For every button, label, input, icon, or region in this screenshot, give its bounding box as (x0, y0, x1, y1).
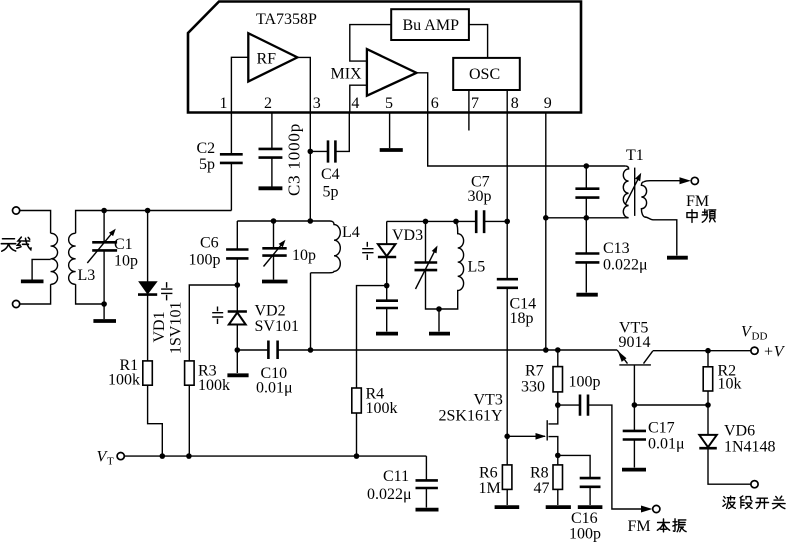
svg-text:100k: 100k (198, 377, 230, 394)
op-amp RF amplifier triangle (248, 33, 297, 81)
varactor VD3 triangle (378, 244, 396, 256)
svg-text:47: 47 (534, 480, 550, 497)
wire L3 secondary top to node A (76, 211, 232, 234)
ground under L5 tank (429, 332, 450, 336)
oscillator OSC box (453, 58, 520, 90)
transistor VT3 gate arrowhead (536, 433, 547, 440)
svg-text:30p: 30p (468, 188, 492, 205)
ground under C17 (622, 468, 646, 472)
terminal FM IF (691, 177, 698, 184)
wire pin4 riser to MIX lower input (350, 85, 367, 112)
svg-text:C11: C11 (383, 468, 409, 485)
wire C14 bottom crosses bus to gate (506, 288, 508, 435)
varactor VD2 cathode bar (228, 310, 247, 313)
transformer T1 tuning arrow (625, 179, 638, 205)
ground under R8 (546, 505, 571, 509)
ground under VD2 node (227, 373, 248, 377)
wire VD1 to R1 (147, 295, 149, 361)
wire C11 bottom lead (425, 488, 427, 508)
capacitor C11 plates (416, 480, 438, 488)
svg-text:6: 6 (431, 95, 439, 112)
wire pin6 down and right to T1 (428, 113, 626, 167)
node dot R2 top on VDD rail (705, 348, 711, 354)
wire Bu AMP right to OSC top (469, 25, 488, 58)
node dot R1 on VT line (160, 453, 166, 459)
capacitor C17 plates (623, 431, 646, 440)
svg-text:OSC: OSC (469, 66, 500, 83)
wire pin8 down to C7 node (506, 113, 508, 222)
capacitor C17 bottom lead (633, 440, 635, 468)
wire T1 secondary bottom to ground (645, 217, 677, 256)
inductor L4 (311, 221, 341, 273)
variable capacitor of L5 bottom lead (426, 270, 440, 309)
wire pin1 riser to RF input (231, 57, 248, 112)
capacitor C1 plates (92, 242, 117, 250)
node dot R2 bottom (705, 402, 711, 408)
svg-text:0.022μ: 0.022μ (603, 257, 648, 274)
terminal VT (117, 453, 124, 460)
node dot L5 tank bottom (436, 306, 442, 312)
varactor VD1 capacitor mark (161, 282, 172, 300)
node dot C4 junction (308, 149, 314, 155)
svg-text:T1: T1 (626, 147, 644, 164)
transformer T1 core (634, 168, 636, 216)
svg-text:FM: FM (686, 193, 709, 210)
svg-text:+V: +V (763, 344, 786, 361)
diode VD6 anode lead (707, 405, 709, 435)
transistor VT5 emitter lead (617, 350, 627, 364)
capacitor below VD3 bottom lead (386, 308, 388, 332)
wire OSC bottom to pin8 (506, 90, 508, 113)
transistor VT3 drain lead (549, 405, 558, 424)
svg-text:C3 1000p: C3 1000p (285, 123, 304, 196)
varactor VD3 capacitor mark (362, 242, 373, 260)
capacitor C1 bottom lead (103, 250, 105, 304)
capacitor C13 top lead (585, 218, 587, 254)
ground pin5 (380, 148, 403, 152)
ground under C11 (416, 508, 439, 512)
wire tank rail VD3 to C7 (387, 220, 477, 222)
node dot pin3 tank (308, 218, 314, 224)
resistor R1 (143, 361, 153, 385)
transistor VT3 channel bar (546, 420, 548, 440)
svg-text:L3: L3 (78, 267, 96, 284)
wire OSC bottom to pin7 (468, 90, 470, 113)
wire MIX output to pin6 (417, 73, 428, 113)
capacitor C3 plates (259, 149, 283, 158)
svg-text:3: 3 (313, 95, 321, 112)
label band switch 关 glyph (772, 496, 785, 508)
capacitor C16 plates (580, 478, 601, 487)
wire pin1 to C2 (230, 113, 232, 155)
node dot tank cap bottom (584, 215, 590, 221)
trimmer capacitor 10p plates (262, 248, 286, 255)
svg-text:VD6: VD6 (724, 423, 755, 440)
terminal +V (751, 347, 758, 354)
ground under C3 (259, 186, 283, 190)
capacitor below VD3 top lead (386, 286, 388, 301)
svg-text:L5: L5 (468, 259, 486, 276)
wire pin3 continues to tank node (309, 151, 311, 221)
label band switch 波 glyph (723, 496, 735, 508)
wire T1 bottom rail (546, 217, 625, 219)
wire source node to R8 (557, 455, 559, 465)
svg-text:100k: 100k (366, 400, 398, 417)
wire R7 top lead (557, 350, 559, 367)
node dot R3 on VT line (186, 453, 192, 459)
svg-text:FM: FM (628, 518, 651, 535)
capacitor C13 bottom lead (585, 262, 587, 292)
wire L3 primary center tap (32, 259, 51, 279)
resistor R6 (502, 465, 512, 490)
transistor VT3 gate wire (507, 435, 545, 437)
wire node B ground stub (103, 304, 105, 319)
svg-text:Bu AMP: Bu AMP (403, 17, 460, 34)
wire R6 bottom lead (506, 489, 508, 505)
wire C3 bottom lead (271, 158, 273, 187)
svg-text:1: 1 (220, 95, 228, 112)
node dot 10p trimmer top (271, 218, 277, 224)
amplifier Bu AMP box (391, 9, 469, 40)
node dot C6-VD2-R3 (235, 282, 241, 288)
svg-text:TA7358P: TA7358P (256, 11, 317, 28)
wire VD3 node to R4 (357, 286, 387, 388)
capacitor C7 plates (476, 210, 484, 233)
node dot C7 pin8 (504, 219, 510, 225)
resistor R4 (352, 388, 362, 413)
varactor VD2 capacitor mark (212, 307, 223, 325)
varactor VD2 top lead (236, 285, 238, 311)
transistor VT5 emitter arrow (618, 351, 627, 362)
node dot tank cap top (584, 163, 590, 169)
wire R7 bottom to drain node (557, 392, 559, 405)
svg-text:10p: 10p (114, 253, 138, 270)
arrowhead FM LO (641, 506, 652, 513)
transformer T1 primary winding (623, 166, 628, 218)
wire antenna top to L3 primary (20, 211, 51, 234)
svg-text:100p: 100p (189, 252, 221, 269)
resistor R2 (703, 367, 713, 391)
transistor VT3 source lead (549, 437, 558, 456)
resistor R7 (553, 367, 563, 392)
ground under C16 (578, 505, 603, 509)
wire C11 top lead (425, 456, 427, 480)
capacitor T1 tank bottom lead (585, 198, 587, 218)
svg-text:VD3: VD3 (392, 227, 423, 244)
capacitor C1 top lead (103, 211, 105, 243)
wire 100p to FM LO terminal with arrow (588, 405, 647, 509)
variable capacitor of L5 top lead (425, 221, 427, 262)
svg-text:C1: C1 (114, 236, 133, 253)
label antenna 线 glyph (17, 237, 31, 250)
trimmer capacitor 10p bottom lead (273, 256, 275, 280)
capacitor C14 top lead (506, 221, 508, 279)
svg-text:10p: 10p (292, 247, 316, 264)
wire source node to C16 (558, 455, 590, 478)
wire C7 right to pin8 line (484, 220, 507, 222)
wire pin9 continues to bus (545, 218, 547, 350)
svg-text:SV101: SV101 (255, 318, 299, 335)
wire L3 primary bottom to antenna bottom (20, 284, 51, 304)
label band switch 开 glyph (756, 498, 769, 508)
resistor R3 (185, 361, 195, 385)
capacitor T1 tank top lead (585, 166, 587, 189)
node dot VD3 (384, 283, 390, 289)
svg-text:RF: RF (257, 51, 277, 68)
svg-text:R8: R8 (530, 465, 549, 482)
svg-text:VT3: VT3 (474, 392, 503, 409)
wire C10 right to pin3 node (278, 349, 311, 351)
ground under 10p trimmer (262, 280, 288, 284)
node dot R4 on VT line (354, 453, 360, 459)
IC U1 TA7358P outline (188, 2, 581, 113)
terminal FM LO (653, 505, 660, 512)
wire tank top rail (237, 220, 330, 222)
wire L3 secondary bottom to node B (76, 284, 105, 304)
wire VD6 to band switch terminal (708, 448, 751, 484)
varactor VD1 cathode bar (138, 293, 157, 296)
wire ground stub below VD2 node (236, 350, 238, 373)
terminal antenna top (13, 207, 20, 214)
wire VD3 bottom to node (386, 257, 388, 286)
svg-text:10k: 10k (718, 376, 742, 393)
op-amp MIX triangle (367, 49, 417, 96)
wire L4 bottom to C10 node (310, 273, 312, 350)
wire T1 secondary top to FM IF terminal with arrow (644, 181, 687, 182)
svg-text:0.022μ: 0.022μ (367, 486, 412, 503)
wire drain node to 100p cap (558, 404, 580, 406)
node dot varicap L5 top (423, 219, 429, 225)
transistor VT5 base bar (619, 364, 651, 366)
wire pin9 down to T1 rail (545, 113, 547, 218)
svg-text:C16: C16 (571, 510, 598, 527)
wire R3 top to VD2 node (189, 285, 237, 361)
varactor VD3 cathode bar (378, 256, 396, 259)
node A dot at C1 (101, 208, 107, 214)
svg-text:18p: 18p (510, 310, 534, 327)
wire gate node to R6 (506, 436, 508, 465)
svg-text:MIX: MIX (331, 66, 363, 83)
node dot C10-pin3-bus (308, 347, 314, 353)
svg-text:100p: 100p (569, 374, 601, 391)
svg-text:DD: DD (752, 331, 768, 343)
trimmer capacitor 10p arrow (264, 243, 284, 267)
ground under R6 (495, 505, 520, 509)
wire pin2 to C3 (271, 113, 273, 149)
varactor VD1 triangle (139, 282, 157, 294)
capacitor C13 plates (575, 254, 599, 263)
capacitor C14 plates (497, 279, 518, 288)
svg-text:R7: R7 (525, 363, 544, 380)
svg-text:C13: C13 (603, 240, 630, 257)
wire R3 bottom to VT line (188, 385, 190, 456)
svg-text:100k: 100k (108, 372, 140, 389)
diode VD6 cathode bar (699, 447, 717, 450)
resistor R8 (553, 465, 563, 490)
capacitor 100p feedback plates (580, 395, 588, 416)
ground under C1 (93, 319, 116, 323)
svg-text:C17: C17 (648, 420, 675, 437)
capacitor C10 plates (268, 341, 277, 360)
capacitor C1 trimmer arrow (87, 232, 113, 263)
capacitor C6 top lead (236, 221, 238, 250)
node B dot (101, 301, 107, 307)
svg-text:C2: C2 (197, 140, 216, 157)
terminal antenna bottom (13, 300, 20, 307)
varactor VD1 top lead (147, 211, 149, 282)
svg-text:5p: 5p (199, 156, 215, 173)
svg-text:C6: C6 (200, 235, 219, 252)
label IF 频 glyph (702, 209, 716, 222)
ground under VD3 capacitor (376, 332, 398, 336)
svg-text:5p: 5p (323, 184, 339, 201)
wire pin3 to C4 junction (309, 113, 311, 152)
inductor L3 secondary winding (69, 233, 76, 284)
svg-text:0.01μ: 0.01μ (256, 380, 293, 397)
wire Bu AMP left to MIX upper input (350, 25, 391, 62)
node dot VD2-C10-ground (235, 347, 241, 353)
capacitor T1 tank plates (575, 189, 599, 198)
ground under T1 secondary (667, 256, 688, 260)
capacitor C17 top lead (633, 405, 635, 431)
variable capacitor of L5 arrow (416, 250, 436, 289)
varactor VD3 top lead from tank rail (386, 221, 388, 244)
capacitor C6 plates (226, 250, 248, 259)
node dot source R8 C16 (555, 453, 561, 459)
wire C4 right lead to pin4 (335, 113, 349, 152)
capacitor C4 plates (328, 140, 335, 162)
transformer T1 secondary winding (641, 182, 646, 218)
wire C16 bottom lead (589, 487, 591, 505)
svg-text:7: 7 (471, 95, 479, 112)
capacitor C2 plates (220, 154, 243, 163)
label band switch 段 glyph (740, 496, 752, 509)
node dot gate R6 (504, 434, 510, 440)
ground under C13 (576, 293, 597, 297)
varactor VD2 triangle (229, 313, 246, 325)
label LO 振 glyph (673, 519, 686, 532)
node dot R7 bottom drain (555, 402, 561, 408)
svg-text:0.01μ: 0.01μ (648, 436, 685, 453)
wire base node to R2 bottom node (634, 404, 708, 406)
svg-text:8: 8 (511, 95, 519, 112)
inductor L5 (439, 221, 464, 309)
inductor L3 primary winding (51, 233, 58, 284)
wire RF output to pin3 (297, 57, 310, 112)
label IF 中 glyph (687, 210, 697, 223)
svg-text:C4: C4 (321, 166, 340, 183)
svg-text:1M: 1M (479, 480, 501, 497)
wire pin7 stub (468, 113, 470, 131)
svg-text:VD1: VD1 (151, 311, 168, 342)
ground tap of L3 (21, 279, 44, 283)
terminal band switch (751, 481, 758, 488)
svg-text:2: 2 (264, 95, 272, 112)
wire main bus C10 node to VT5 (311, 349, 618, 351)
svg-text:1N4148: 1N4148 (724, 439, 776, 456)
svg-text:VD2: VD2 (255, 303, 286, 320)
variable capacitor of L5 plates (415, 263, 438, 271)
svg-text:2SK161Y: 2SK161Y (439, 408, 503, 425)
trimmer capacitor 10p top lead (273, 221, 275, 248)
arrowhead FM IF (680, 177, 691, 184)
capacitor C6 bottom lead (236, 258, 238, 285)
node dot pin9 T1 rail (543, 215, 549, 221)
wire C4 left lead (310, 150, 328, 152)
svg-text:9: 9 (544, 95, 552, 112)
svg-text:5: 5 (385, 95, 393, 112)
svg-text:4: 4 (351, 95, 359, 112)
node dot pin9 bus (543, 347, 549, 353)
svg-text:T: T (107, 456, 114, 468)
wire C2 bottom to node A (230, 163, 232, 211)
svg-text:330: 330 (521, 379, 545, 396)
label LO 本 glyph (657, 519, 669, 532)
wire R1 bottom jog to VT line (148, 385, 163, 456)
wire R4 bottom to VT line (356, 413, 358, 456)
label antenna 天 glyph (1, 239, 15, 251)
wire R2 bottom to VD6 node (707, 391, 709, 405)
diode VD6 triangle (699, 435, 717, 447)
svg-text:R6: R6 (479, 465, 498, 482)
svg-text:100p: 100p (569, 526, 601, 543)
svg-text:9014: 9014 (619, 334, 651, 351)
wire VT5 base (633, 365, 635, 405)
wire VT line (124, 455, 426, 457)
svg-text:1SV101: 1SV101 (168, 302, 185, 354)
svg-text:L4: L4 (342, 224, 360, 241)
wire ground stub L5 tank (438, 309, 440, 332)
node A dot at VD1 (145, 208, 151, 214)
wire pin5 to ground (389, 113, 391, 149)
wire R8 bottom lead (557, 489, 559, 505)
wire VD2 node to C10 (237, 349, 268, 351)
capacitor below VD3 plates (376, 301, 398, 308)
node dot R7 top on bus (555, 347, 561, 353)
node dot L5 top (453, 219, 459, 225)
wire R2 top lead (707, 351, 709, 367)
wire VD2 bottom to C10 node (236, 325, 238, 351)
transistor VT5 collector lead (644, 351, 653, 364)
wire VDD rail VT5 to +V terminal (653, 350, 751, 352)
node dot VT5 base C17 (632, 402, 638, 408)
